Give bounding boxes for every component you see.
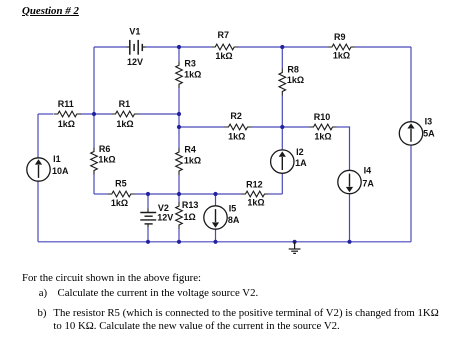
resistor R6	[91, 144, 116, 175]
resistor R11	[54, 99, 81, 129]
wire branch x282 seg2	[281, 96, 283, 128]
node I5 top junction	[213, 192, 217, 196]
wire I5 branch upper	[215, 194, 217, 206]
wire branch x282 seg1	[281, 47, 283, 69]
wire R2 level seg2	[252, 126, 310, 128]
svg-text:R13: R13	[182, 200, 199, 210]
wire R5 level seg3	[269, 193, 283, 195]
svg-text:R2: R2	[230, 111, 242, 121]
wire branch x282 seg3	[281, 127, 283, 150]
svg-text:1kΩ: 1kΩ	[98, 154, 115, 164]
current source I1	[27, 154, 69, 181]
wire R2 level seg3	[337, 126, 351, 128]
node R13 top junction	[177, 192, 181, 196]
svg-text:V1: V1	[129, 27, 140, 37]
node R2/R10/I2 junction	[280, 125, 284, 129]
wire bottom rail	[38, 241, 411, 243]
svg-text:10A: 10A	[52, 166, 69, 176]
voltage source V1 12V battery	[127, 27, 146, 67]
svg-text:5A: 5A	[423, 129, 435, 139]
title	[22, 5, 79, 17]
svg-text:1kΩ: 1kΩ	[58, 119, 75, 129]
svg-text:1kΩ: 1kΩ	[184, 155, 201, 165]
resistor R13	[176, 200, 199, 229]
wire top rail seg1	[94, 46, 127, 48]
resistor R12	[242, 180, 269, 208]
wire branch x94 lower	[93, 175, 95, 195]
wire left rail upper	[37, 114, 39, 158]
item b line 2	[53, 321, 339, 332]
svg-text:7A: 7A	[362, 179, 374, 189]
wire branch x349 lower	[349, 193, 351, 241]
svg-text:R8: R8	[287, 64, 299, 74]
wire R5 level seg1	[94, 193, 108, 195]
paragraph line 1	[22, 273, 201, 284]
node I5 bottom junction	[213, 240, 217, 244]
svg-text:R11: R11	[58, 99, 74, 109]
wire right rail lower	[410, 145, 412, 242]
wire branch x94 upper	[93, 47, 95, 148]
wire branch x349 upper	[349, 127, 351, 171]
voltage source V2 12V battery	[140, 203, 173, 228]
svg-text:1kΩ: 1kΩ	[215, 51, 232, 61]
node R13 bottom junction	[177, 240, 181, 244]
svg-text:R10: R10	[314, 112, 331, 122]
svg-text:I2: I2	[296, 147, 304, 157]
node V2 top junction	[146, 192, 150, 196]
wire top rail seg3	[238, 46, 328, 48]
svg-text:1kΩ: 1kΩ	[314, 132, 331, 142]
wire branch x179 seg1	[178, 47, 180, 61]
wire branch x179 seg5	[178, 229, 180, 242]
current source I5	[204, 204, 240, 230]
svg-text:1Ω: 1Ω	[184, 212, 196, 222]
wire R11 level seg1	[38, 113, 53, 115]
svg-text:12V: 12V	[157, 213, 173, 223]
resistor R4	[176, 145, 201, 176]
wire branch x179 seg3	[178, 175, 180, 194]
svg-text:1kΩ: 1kΩ	[111, 198, 128, 208]
svg-text:1kΩ: 1kΩ	[333, 51, 350, 61]
resistor R3	[176, 58, 202, 88]
resistor R1	[112, 99, 139, 129]
current source I4	[338, 165, 375, 193]
resistor R10	[310, 112, 337, 142]
wire R11 level seg2	[80, 113, 111, 115]
svg-text:R6: R6	[99, 144, 111, 154]
svg-text:R7: R7	[218, 30, 230, 40]
ground	[289, 242, 301, 254]
resistor R7	[211, 30, 238, 61]
wire branch x282 seg4	[281, 173, 283, 194]
wire R11 level seg3	[139, 113, 180, 115]
svg-text:R4: R4	[184, 145, 196, 155]
wire R2 level seg1	[179, 126, 225, 128]
svg-text:I4: I4	[364, 165, 372, 175]
node top/R8 junction	[280, 45, 284, 49]
svg-text:I5: I5	[229, 204, 237, 214]
resistor R5	[108, 178, 135, 208]
svg-text:R1: R1	[119, 99, 131, 109]
resistor R8	[279, 64, 304, 95]
node R1/x179 junction	[177, 112, 181, 116]
svg-text:R12: R12	[246, 180, 263, 190]
current source I3	[399, 116, 435, 145]
item b line 1	[38, 308, 47, 319]
current source I2	[271, 147, 308, 173]
resistor R2	[225, 111, 252, 142]
svg-text:1kΩ: 1kΩ	[287, 75, 304, 85]
wire left rail lower	[37, 181, 39, 242]
wire R5 level seg2	[135, 193, 242, 195]
wire top rail seg2	[145, 46, 211, 48]
svg-text:R5: R5	[115, 178, 127, 188]
wire branch x179 seg2	[178, 88, 180, 148]
node R2 left junction	[177, 125, 181, 129]
svg-text:1kΩ: 1kΩ	[116, 119, 133, 129]
svg-text:I1: I1	[53, 154, 61, 164]
svg-text:1A: 1A	[295, 158, 307, 168]
wire branch x179 seg4	[178, 194, 180, 202]
wire top rail seg4	[355, 46, 411, 48]
wire V2 branch upper	[147, 194, 149, 209]
node ground junction	[293, 240, 297, 244]
wire I5 branch lower	[215, 229, 217, 242]
svg-text:1kΩ: 1kΩ	[247, 198, 264, 208]
node R11/R1 junction	[92, 112, 96, 116]
resistor R9	[328, 32, 355, 61]
svg-text:12V: 12V	[127, 57, 143, 67]
wire right rail upper	[410, 47, 412, 122]
svg-text:R3: R3	[184, 58, 196, 68]
node V2 bottom junction	[146, 240, 150, 244]
svg-text:1kΩ: 1kΩ	[184, 69, 201, 79]
node I4 bottom junction	[347, 240, 351, 244]
svg-text:I3: I3	[425, 116, 433, 126]
svg-text:8A: 8A	[228, 215, 240, 225]
svg-text:1kΩ: 1kΩ	[228, 132, 245, 142]
node top/R3 junction	[177, 45, 181, 49]
wire V2 branch lower	[147, 228, 149, 242]
item a	[39, 288, 47, 299]
svg-text:R9: R9	[334, 32, 346, 42]
